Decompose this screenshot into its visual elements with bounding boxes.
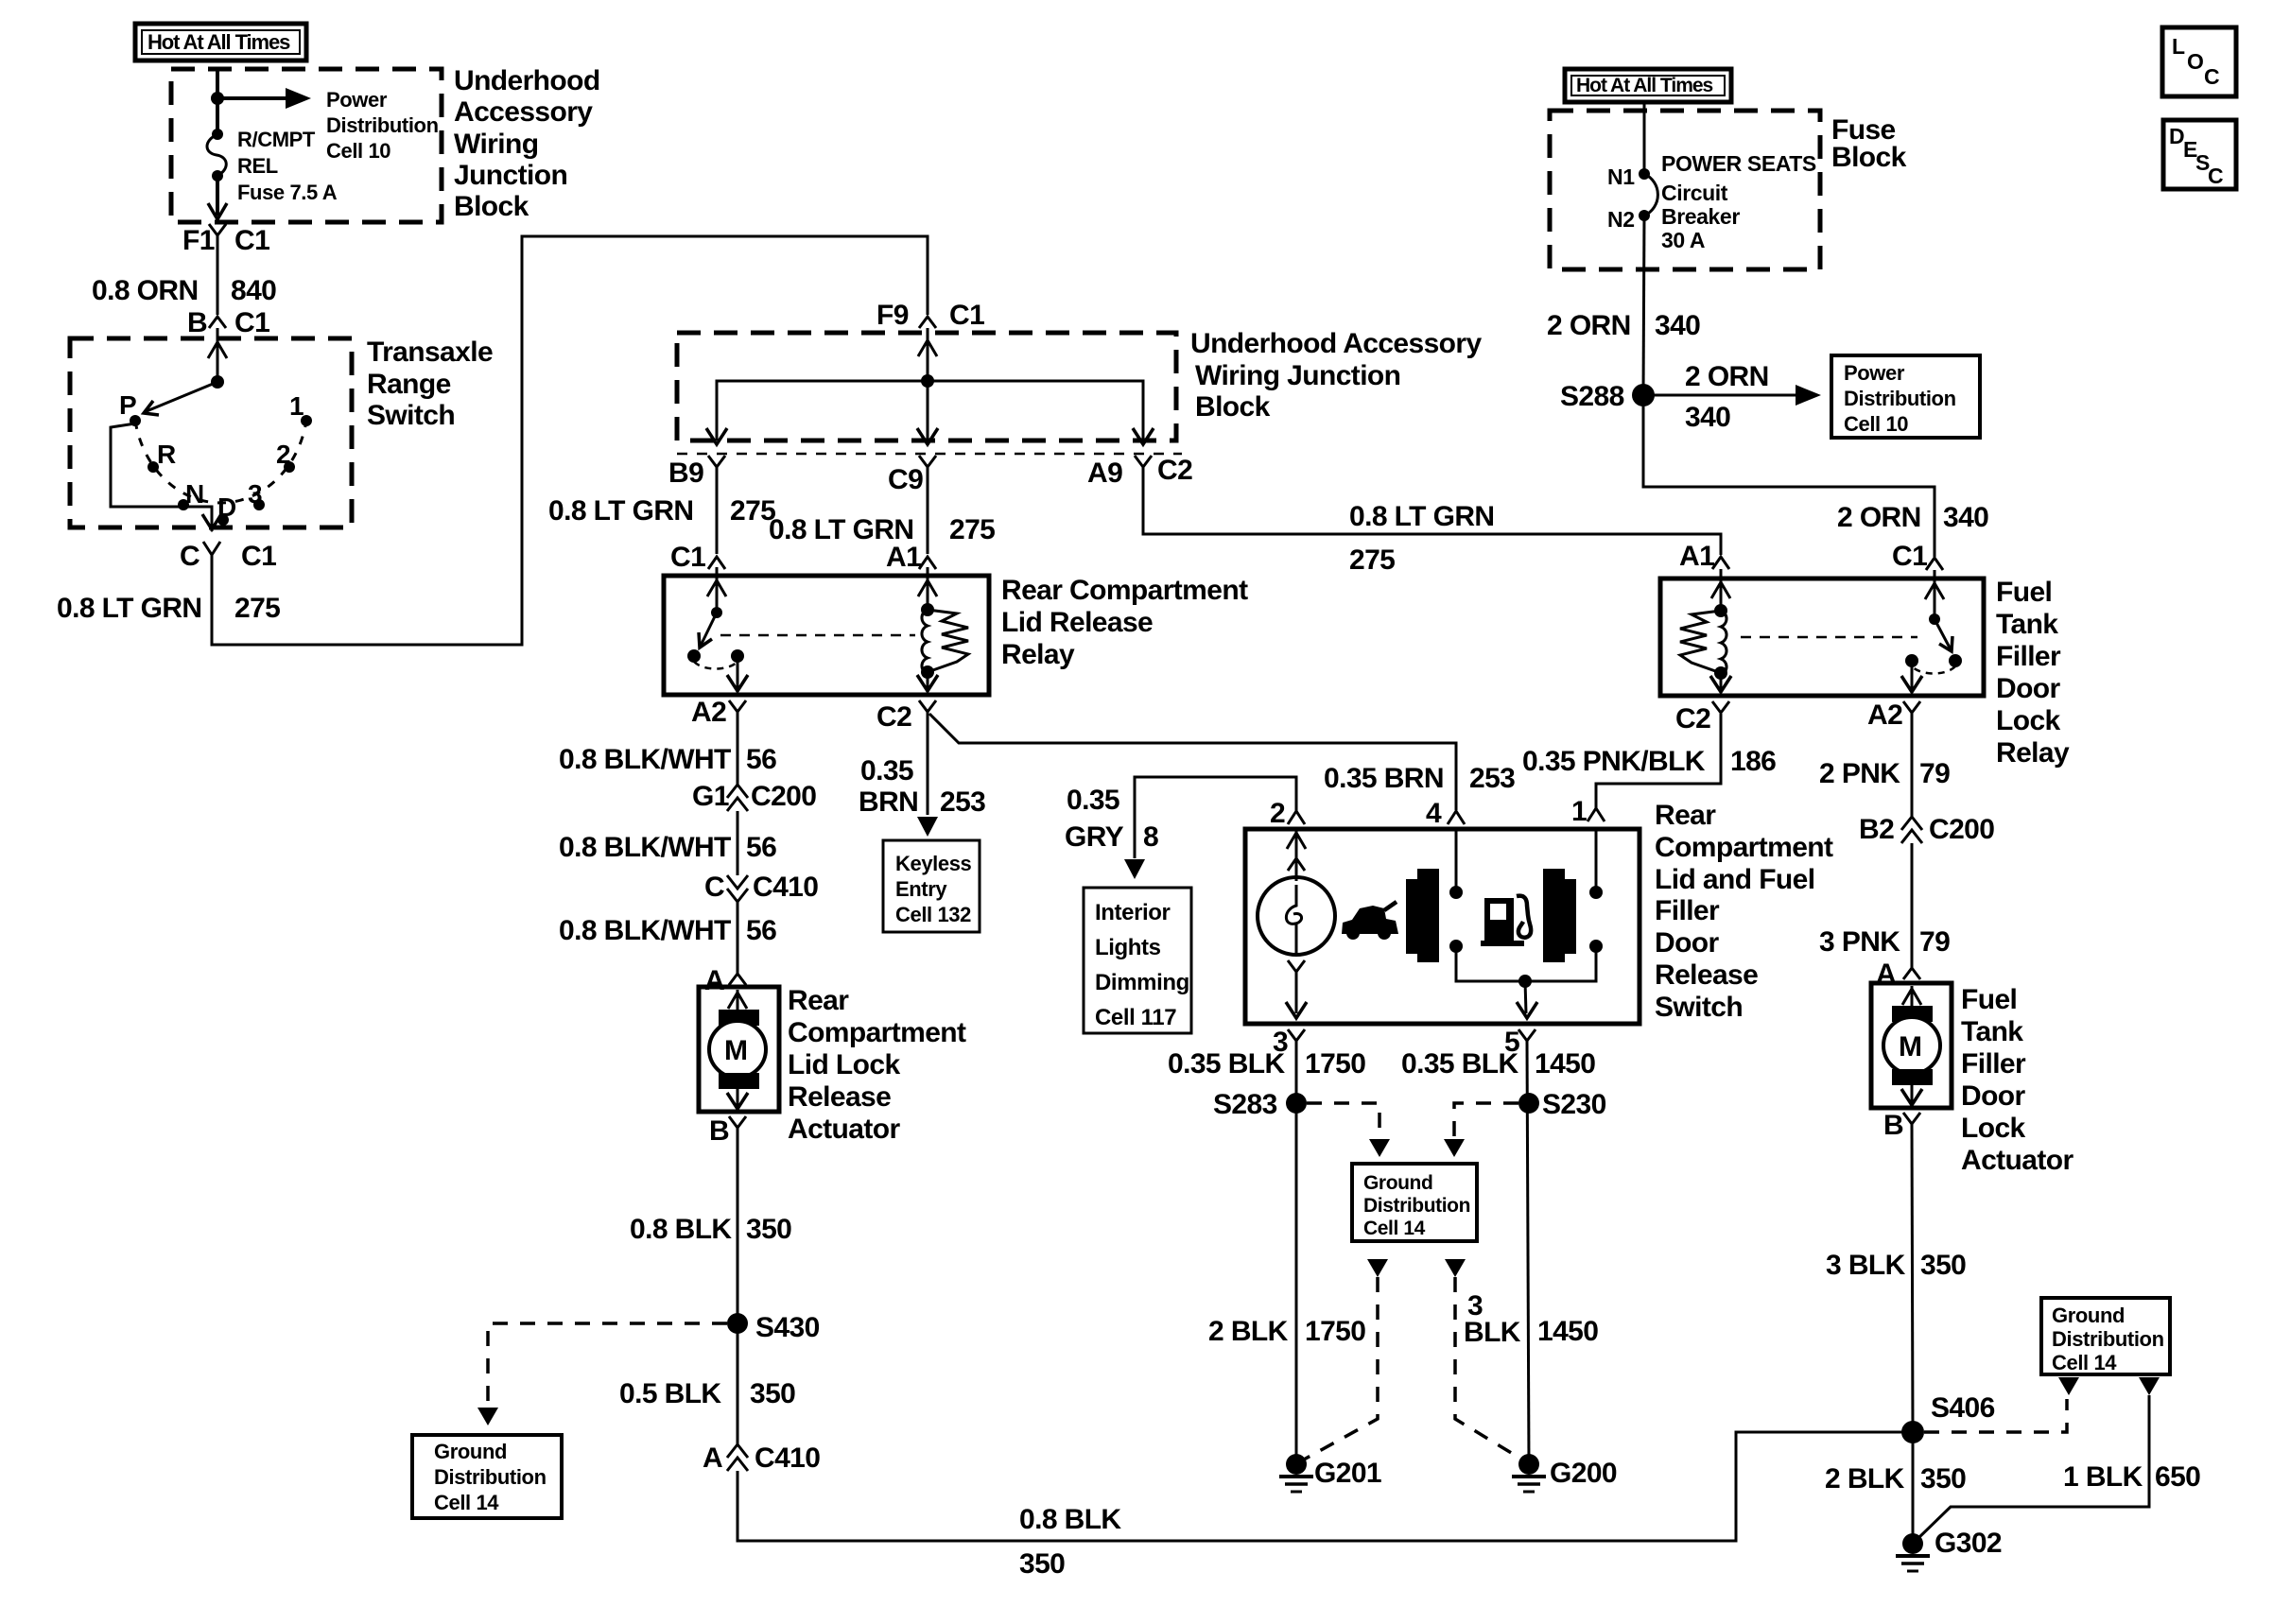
svg-text:Ground: Ground xyxy=(434,1440,507,1463)
wire: switch1 output to pin 5 bus xyxy=(1456,946,1596,981)
svg-text:C1: C1 xyxy=(234,307,269,338)
svg-text:2 ORN: 2 ORN xyxy=(1547,310,1631,341)
svg-text:Tank: Tank xyxy=(1961,1016,2023,1047)
svg-text:0.8 BLK/WHT: 0.8 BLK/WHT xyxy=(559,832,731,863)
label box: Hot At All Times (left) xyxy=(135,24,306,60)
dashed wires: ground distribution down to G201 / G200 xyxy=(1367,1259,1388,1277)
ground G201 xyxy=(1279,1454,1381,1492)
svg-text:0.8 ORN: 0.8 ORN xyxy=(92,275,199,306)
connector A1 (relay1) xyxy=(886,542,936,573)
wire: arrow to Power Distribution Cell 10 xyxy=(217,96,288,100)
svg-text:Compartment: Compartment xyxy=(1655,832,1833,863)
Interior Lights Dimming Cell 117 box xyxy=(1084,888,1191,1033)
svg-text:Range: Range xyxy=(367,369,451,400)
wire: A2 down xyxy=(737,712,739,785)
svg-text:1: 1 xyxy=(289,391,304,421)
wire: long bottom run to S406 xyxy=(737,1432,1902,1541)
svg-text:0.8 LT GRN: 0.8 LT GRN xyxy=(1349,501,1494,532)
wire: to actuator A xyxy=(737,902,739,974)
relay1 box xyxy=(664,576,989,695)
svg-text:REL: REL xyxy=(237,154,278,178)
svg-text:B2: B2 xyxy=(1859,814,1894,845)
svg-text:Release: Release xyxy=(788,1081,891,1113)
svg-text:B9: B9 xyxy=(668,458,703,489)
contact P xyxy=(130,415,141,426)
svg-text:Lid Lock: Lid Lock xyxy=(788,1049,900,1080)
label: 3 BLK 1450 xyxy=(1464,1290,1598,1348)
svg-text:350: 350 xyxy=(1019,1548,1065,1580)
svg-text:Cell 10: Cell 10 xyxy=(1844,412,1908,436)
label: Rear Compartment Lid Release Relay xyxy=(1001,575,1248,670)
svg-text:C410: C410 xyxy=(753,872,818,903)
svg-text:C: C xyxy=(2204,64,2219,89)
svg-text:B: B xyxy=(1883,1110,1903,1141)
relay2 coil output arrow xyxy=(1720,673,1723,689)
label: 0.35 BLK 1450 xyxy=(1401,1048,1595,1080)
relay1 switch contacts xyxy=(687,649,701,663)
dashed wire: S406 to ground distribution (right) xyxy=(1924,1399,2067,1432)
label: Power Distribution Cell 10 xyxy=(326,88,439,163)
label: 0.35 BRN 253 (down) xyxy=(859,755,985,818)
svg-text:Actuator: Actuator xyxy=(1961,1145,2073,1176)
svg-text:0.8 BLK/WHT: 0.8 BLK/WHT xyxy=(559,915,731,946)
wire: B down to S430 xyxy=(737,1128,739,1323)
wire: B down to S406 xyxy=(1912,1124,1913,1432)
svg-text:0.35 PNK/BLK: 0.35 PNK/BLK xyxy=(1522,746,1706,777)
wire: A2 down xyxy=(1911,713,1914,817)
Ground Distribution Cell 14 box (middle) xyxy=(1352,1164,1477,1241)
connector A C410 (lower) xyxy=(703,1443,820,1474)
wire: S288 arrow to Power Distribution xyxy=(1643,394,1798,397)
coil windings (relay2) xyxy=(1721,611,1726,675)
svg-text:350: 350 xyxy=(1920,1250,1966,1281)
svg-text:Door: Door xyxy=(1655,927,1720,959)
svg-text:C9: C9 xyxy=(888,464,923,495)
relay2 switch contacts xyxy=(1949,654,1962,667)
svg-text:A1: A1 xyxy=(886,542,921,573)
wire: pin 5 down to G200 xyxy=(1527,1041,1529,1464)
connector B (actuator2) xyxy=(1883,1110,1920,1141)
svg-text:BLK: BLK xyxy=(1464,1317,1521,1348)
svg-text:N: N xyxy=(185,479,204,509)
svg-text:350: 350 xyxy=(746,1214,791,1245)
LOC box xyxy=(2162,27,2236,96)
svg-text:Fuel: Fuel xyxy=(1961,984,2017,1015)
svg-text:POWER SEATS: POWER SEATS xyxy=(1661,151,1816,176)
Ground Distribution Cell 14 box (left) xyxy=(412,1435,562,1518)
label: 2 ORN 340 xyxy=(1547,310,1700,341)
svg-text:Filler: Filler xyxy=(1655,895,1720,926)
svg-text:340: 340 xyxy=(1655,310,1700,341)
actuator1 box xyxy=(699,987,779,1112)
connector pin 4 xyxy=(1426,798,1465,829)
label: 0.8 ORN 840 xyxy=(92,275,276,306)
parallel resistor xyxy=(928,610,968,672)
svg-text:A2: A2 xyxy=(691,697,726,728)
svg-text:Lid and Fuel: Lid and Fuel xyxy=(1655,864,1814,895)
contact 3 xyxy=(253,499,265,510)
wire: pin 4 into switch 1 xyxy=(1455,829,1458,892)
svg-text:C2: C2 xyxy=(876,701,911,733)
connector face dashed line xyxy=(677,453,1182,456)
svg-text:Ground: Ground xyxy=(1363,1172,1432,1194)
svg-text:A: A xyxy=(704,965,724,996)
Fuse Block dashed box xyxy=(1550,111,1820,269)
connector C C1 xyxy=(180,541,276,572)
svg-text:C1: C1 xyxy=(670,542,705,573)
relay2 box xyxy=(1660,579,1984,696)
switch 1 contact bar (lid) xyxy=(1406,869,1439,962)
label: 0.8 BLK/WHT 56 (2) xyxy=(559,832,776,863)
svg-text:Distribution: Distribution xyxy=(1844,387,1956,410)
label: 2 ORN 340 (to C1) xyxy=(1837,502,1988,533)
label: 0.8 LT GRN 275 (A9) xyxy=(1349,501,1494,576)
connector B2 C200 xyxy=(1859,814,1994,845)
svg-text:Lock: Lock xyxy=(1961,1113,2026,1144)
svg-text:1 BLK: 1 BLK xyxy=(2063,1461,2143,1493)
svg-text:R/CMPT: R/CMPT xyxy=(237,128,316,151)
wire: C C1 down, right, up to F9 xyxy=(212,236,928,645)
svg-text:Cell 14: Cell 14 xyxy=(1363,1218,1426,1239)
label: 2 BLK 1750 xyxy=(1208,1316,1365,1347)
svg-text:0.35 BRN: 0.35 BRN xyxy=(1324,763,1444,794)
label: N1 N2 xyxy=(1607,164,1635,232)
svg-text:Wiring: Wiring xyxy=(454,129,538,160)
DESC box xyxy=(2163,120,2236,189)
svg-text:Switch: Switch xyxy=(1655,992,1743,1023)
splice S288 xyxy=(1560,381,1655,412)
svg-text:Hot At All Times: Hot At All Times xyxy=(1576,75,1713,96)
label: R/CMPT REL Fuse 7.5 A xyxy=(237,128,338,204)
svg-text:0.8 BLK: 0.8 BLK xyxy=(630,1214,732,1245)
svg-text:N2: N2 xyxy=(1607,207,1635,232)
fuse R/CMPT REL Fuse 7.5 A xyxy=(207,129,226,181)
svg-text:Accessory: Accessory xyxy=(454,96,593,128)
svg-text:B: B xyxy=(709,1115,729,1147)
node: feed junction dot xyxy=(211,92,224,105)
contact N xyxy=(178,499,189,510)
Keyless Entry Cell 132 box xyxy=(883,840,980,932)
svg-text:350: 350 xyxy=(1920,1463,1966,1494)
node: junction block internal dot xyxy=(921,374,934,388)
splice S283 xyxy=(1213,1089,1307,1120)
svg-text:C200: C200 xyxy=(1929,814,1994,845)
svg-text:Lock: Lock xyxy=(1996,705,2061,736)
connector B9 xyxy=(668,456,725,489)
label: 0.8 BLK 350 xyxy=(630,1214,791,1245)
svg-text:Release: Release xyxy=(1655,959,1758,991)
label box: Hot At All Times (right) xyxy=(1565,69,1731,102)
svg-text:B: B xyxy=(187,307,207,338)
svg-text:340: 340 xyxy=(1685,402,1730,433)
relay2 coil from A1 xyxy=(1720,569,1723,611)
svg-text:Underhood: Underhood xyxy=(454,65,600,96)
wire: pin 3 down to G201 xyxy=(1295,1041,1298,1464)
label: Fuse Block xyxy=(1831,114,1907,173)
contact 1 xyxy=(301,415,312,426)
svg-text:8: 8 xyxy=(1143,821,1158,853)
svg-text:Block: Block xyxy=(454,191,529,222)
svg-text:Block: Block xyxy=(1831,142,1907,173)
relay1 switch arm xyxy=(701,613,717,646)
svg-text:S283: S283 xyxy=(1213,1089,1277,1120)
motor M (actuator1) xyxy=(709,990,766,1109)
svg-text:Power: Power xyxy=(326,88,388,112)
svg-text:Circuit: Circuit xyxy=(1661,181,1728,205)
svg-text:A1: A1 xyxy=(1679,541,1714,572)
svg-text:56: 56 xyxy=(746,832,776,863)
svg-text:G201: G201 xyxy=(1314,1458,1381,1489)
svg-text:1750: 1750 xyxy=(1305,1048,1365,1080)
svg-text:1: 1 xyxy=(1571,796,1587,827)
svg-text:1450: 1450 xyxy=(1535,1048,1595,1080)
wire: exit arrow down through box edge xyxy=(202,514,221,529)
label: 0.8 LT GRN 275 (C9) xyxy=(769,514,995,545)
svg-text:0.8 BLK/WHT: 0.8 BLK/WHT xyxy=(559,744,731,775)
svg-text:1450: 1450 xyxy=(1537,1316,1598,1347)
svg-text:C1: C1 xyxy=(1892,541,1927,572)
Transaxle Range Switch dashed box xyxy=(70,338,352,527)
svg-text:Breaker: Breaker xyxy=(1661,204,1740,229)
svg-text:G200: G200 xyxy=(1550,1458,1617,1489)
svg-text:C: C xyxy=(2208,164,2223,188)
node: bus junction xyxy=(1518,975,1532,988)
label: 3 BLK 350 xyxy=(1826,1250,1966,1281)
label: 0.8 LT GRN 275 (B9) xyxy=(548,495,775,527)
label: 0.35 GRY 8 xyxy=(1065,785,1158,853)
svg-text:Door: Door xyxy=(1961,1080,2026,1112)
svg-text:4: 4 xyxy=(1426,798,1442,829)
svg-text:S230: S230 xyxy=(1542,1089,1606,1120)
wire: to C410 xyxy=(737,811,739,875)
wire: into fuse block xyxy=(1643,102,1646,174)
connector C1 (relay1) xyxy=(670,542,725,573)
svg-text:56: 56 xyxy=(746,915,776,946)
svg-text:Switch: Switch xyxy=(367,400,455,431)
wire: to actuator2 A xyxy=(1911,843,1914,968)
svg-text:Rear Compartment: Rear Compartment xyxy=(1001,575,1248,606)
connector C2 (relay1) xyxy=(876,700,936,733)
label: 0.8 BLK/WHT 56 (1) xyxy=(559,744,776,775)
svg-text:0.35 BLK: 0.35 BLK xyxy=(1168,1048,1286,1080)
svg-text:Relay: Relay xyxy=(1996,737,2070,769)
svg-text:C1: C1 xyxy=(234,225,269,256)
wire: F9 into block with up arrow xyxy=(927,328,929,381)
svg-text:Hot At All Times: Hot At All Times xyxy=(147,30,290,54)
wire: 0.8 ORN 840 xyxy=(217,235,219,315)
svg-text:56: 56 xyxy=(746,744,776,775)
contact labels P R N D 3 2 1 xyxy=(119,390,304,522)
wire: fuse output arrow down xyxy=(216,176,219,216)
svg-text:Relay: Relay xyxy=(1001,639,1075,670)
relay2 switch arm xyxy=(1935,619,1951,649)
svg-text:79: 79 xyxy=(1919,758,1950,789)
svg-text:S430: S430 xyxy=(755,1312,820,1343)
dashed wire: S283 to ground distribution (middle) xyxy=(1307,1103,1379,1138)
release switch box xyxy=(1245,829,1640,1024)
splice S230 xyxy=(1518,1089,1606,1120)
wire: S406 down to G302 xyxy=(1912,1432,1915,1544)
svg-text:F9: F9 xyxy=(876,300,909,331)
circuit breaker POWER SEATS 30A xyxy=(1639,168,1657,221)
label: 2 PNK 79 xyxy=(1819,758,1950,789)
svg-text:79: 79 xyxy=(1919,926,1950,958)
svg-text:Cell 14: Cell 14 xyxy=(434,1491,499,1514)
svg-text:Dimming: Dimming xyxy=(1095,970,1189,995)
svg-text:S288: S288 xyxy=(1560,381,1624,412)
wire: P contact to switch output xyxy=(111,423,212,514)
svg-text:840: 840 xyxy=(231,275,276,306)
contact D xyxy=(217,514,229,526)
relay2 switch output arrow xyxy=(1911,661,1914,689)
svg-text:Underhood Accessory: Underhood Accessory xyxy=(1190,328,1482,359)
relay1 coil from A1 xyxy=(927,567,929,610)
label: 2 BLK 350 xyxy=(1825,1463,1966,1494)
svg-text:GRY: GRY xyxy=(1065,821,1124,853)
svg-text:Rear: Rear xyxy=(1655,800,1716,831)
connector pin 3 xyxy=(1273,1027,1305,1058)
connector C1 (relay2) xyxy=(1892,541,1943,572)
svg-text:2: 2 xyxy=(276,440,291,469)
wire: internal bus to B9 / C9 / A9 xyxy=(717,381,1143,441)
svg-text:Distribution: Distribution xyxy=(1363,1195,1470,1217)
svg-text:M: M xyxy=(1899,1031,1921,1063)
svg-text:P: P xyxy=(119,390,137,420)
svg-text:Power: Power xyxy=(1844,361,1905,385)
label: 3 PNK 79 xyxy=(1819,926,1950,958)
svg-text:275: 275 xyxy=(949,514,995,545)
wire: B9 down to relay C1 xyxy=(716,467,719,554)
svg-text:Transaxle: Transaxle xyxy=(367,337,493,368)
svg-text:C2: C2 xyxy=(1675,703,1710,734)
connector B C1 xyxy=(187,307,269,338)
splice S406 xyxy=(1901,1392,1995,1443)
svg-text:3: 3 xyxy=(248,479,263,509)
connector C9 xyxy=(888,456,936,495)
svg-text:F1: F1 xyxy=(182,225,215,256)
svg-text:C410: C410 xyxy=(755,1443,820,1474)
svg-text:650: 650 xyxy=(2155,1461,2200,1493)
Ground Distribution Cell 14 box (right) xyxy=(2041,1298,2170,1374)
svg-text:M: M xyxy=(724,1035,747,1066)
connector A (actuator1) xyxy=(704,965,746,996)
svg-text:0.8 BLK: 0.8 BLK xyxy=(1019,1504,1121,1535)
svg-text:30 A: 30 A xyxy=(1661,228,1705,252)
svg-text:Rear: Rear xyxy=(788,985,849,1016)
svg-text:Actuator: Actuator xyxy=(788,1114,900,1145)
svg-text:0.35: 0.35 xyxy=(860,755,913,786)
connector B (actuator1) xyxy=(709,1115,746,1147)
svg-text:253: 253 xyxy=(1469,763,1515,794)
svg-text:1750: 1750 xyxy=(1305,1316,1365,1347)
connector F1 C1 xyxy=(182,224,269,256)
svg-text:2 BLK: 2 BLK xyxy=(1208,1316,1289,1347)
svg-text:2 ORN: 2 ORN xyxy=(1685,361,1769,392)
switch 2 contact bar (fuel door) xyxy=(1543,869,1576,962)
svg-text:Keyless: Keyless xyxy=(895,852,972,875)
svg-text:275: 275 xyxy=(234,593,280,624)
connector C2 (relay2) xyxy=(1675,701,1729,734)
svg-text:Junction: Junction xyxy=(454,160,567,191)
wire: bus down to pin 5 xyxy=(1525,981,1526,1013)
node: switch pivot xyxy=(211,375,224,389)
wire: pin2 up and left to interior lights dimming xyxy=(1135,777,1296,858)
parallel resistor (relay2) xyxy=(1680,611,1721,673)
svg-text:BRN: BRN xyxy=(859,786,918,818)
wire: 1 BLK 650 from ground distribution down to G302 xyxy=(2139,1377,2160,1395)
svg-text:C200: C200 xyxy=(751,781,816,812)
connector F9 C1 xyxy=(876,300,984,331)
wire: S288 down right to relay2 C1 xyxy=(1643,395,1935,557)
svg-text:D: D xyxy=(2169,124,2184,148)
svg-text:Cell 117: Cell 117 xyxy=(1095,1005,1176,1030)
motor M (actuator2) xyxy=(1883,986,1940,1105)
svg-text:Tank: Tank xyxy=(1996,609,2058,640)
svg-text:0.8 LT GRN: 0.8 LT GRN xyxy=(57,593,201,624)
wire: C2 down to Keyless Entry with solid arrow xyxy=(927,712,929,815)
connector A2 (relay2) xyxy=(1867,700,1920,731)
wire: C2 diagonal to release switch pin 4 xyxy=(929,714,1456,810)
connector G1 C200 xyxy=(692,781,816,812)
label: 2 ORN 340 (arrow) xyxy=(1685,361,1769,433)
actuator2 box xyxy=(1871,983,1952,1108)
relay1 switch: common from C1 xyxy=(716,567,719,613)
svg-text:Cell 14: Cell 14 xyxy=(2052,1351,2117,1374)
connector A1 (relay2) xyxy=(1679,541,1729,572)
relay2 actuation dashed line xyxy=(1741,636,1917,639)
Underhood Accessory Wiring Junction Block (left) dashed box xyxy=(171,69,442,222)
svg-text:A: A xyxy=(703,1443,722,1474)
connector pin 5 xyxy=(1504,1027,1536,1058)
Power Distribution Cell 10 box xyxy=(1831,355,1980,438)
connector A2 (relay1) xyxy=(691,697,746,728)
svg-text:Lid Release: Lid Release xyxy=(1001,607,1153,638)
svg-text:Wiring Junction: Wiring Junction xyxy=(1195,360,1400,391)
contact 2 xyxy=(284,461,295,473)
svg-text:G1: G1 xyxy=(692,781,729,812)
dashed wire: S230 to ground distribution (middle) xyxy=(1454,1103,1518,1138)
svg-text:0.35 BLK: 0.35 BLK xyxy=(1401,1048,1519,1080)
svg-text:Cell 10: Cell 10 xyxy=(326,139,390,163)
connector pin 1 xyxy=(1571,796,1605,827)
svg-text:2 BLK: 2 BLK xyxy=(1825,1463,1905,1494)
splice S430 xyxy=(727,1312,820,1343)
svg-text:275: 275 xyxy=(1349,544,1395,576)
relay1 actuation dashed line xyxy=(720,634,915,637)
label: 0.35 BRN 253 (pin4) xyxy=(1324,763,1515,794)
label: Fuel Tank Filler Door Lock Actuator xyxy=(1961,984,2073,1176)
svg-text:Distribution: Distribution xyxy=(326,113,439,137)
svg-text:C2: C2 xyxy=(1157,455,1192,486)
relay1 switch output arrow xyxy=(737,656,739,688)
wire: pin 1 into switch 2 xyxy=(1595,829,1598,892)
svg-text:Entry: Entry xyxy=(895,877,947,901)
svg-text:Ground: Ground xyxy=(2052,1304,2125,1327)
connector C C410 xyxy=(704,872,818,903)
label: 0.8 BLK/WHT 56 (3) xyxy=(559,915,776,946)
svg-text:0.5 BLK: 0.5 BLK xyxy=(619,1378,721,1409)
relay2 switch: common from C1 xyxy=(1934,570,1936,619)
svg-text:S406: S406 xyxy=(1931,1392,1995,1424)
label: 0.35 PNK/BLK 186 xyxy=(1522,746,1776,777)
connector A (actuator2) xyxy=(1876,959,1920,990)
label: Underhood Accessory Wiring Junction Block xyxy=(454,65,600,222)
label: Rear Compartment Lid Lock Release Actuator xyxy=(788,985,966,1145)
svg-text:Filler: Filler xyxy=(1961,1048,2026,1080)
svg-text:Fuse 7.5 A: Fuse 7.5 A xyxy=(237,181,338,204)
svg-text:Compartment: Compartment xyxy=(788,1017,966,1048)
connector A9 C2 xyxy=(1087,455,1192,489)
